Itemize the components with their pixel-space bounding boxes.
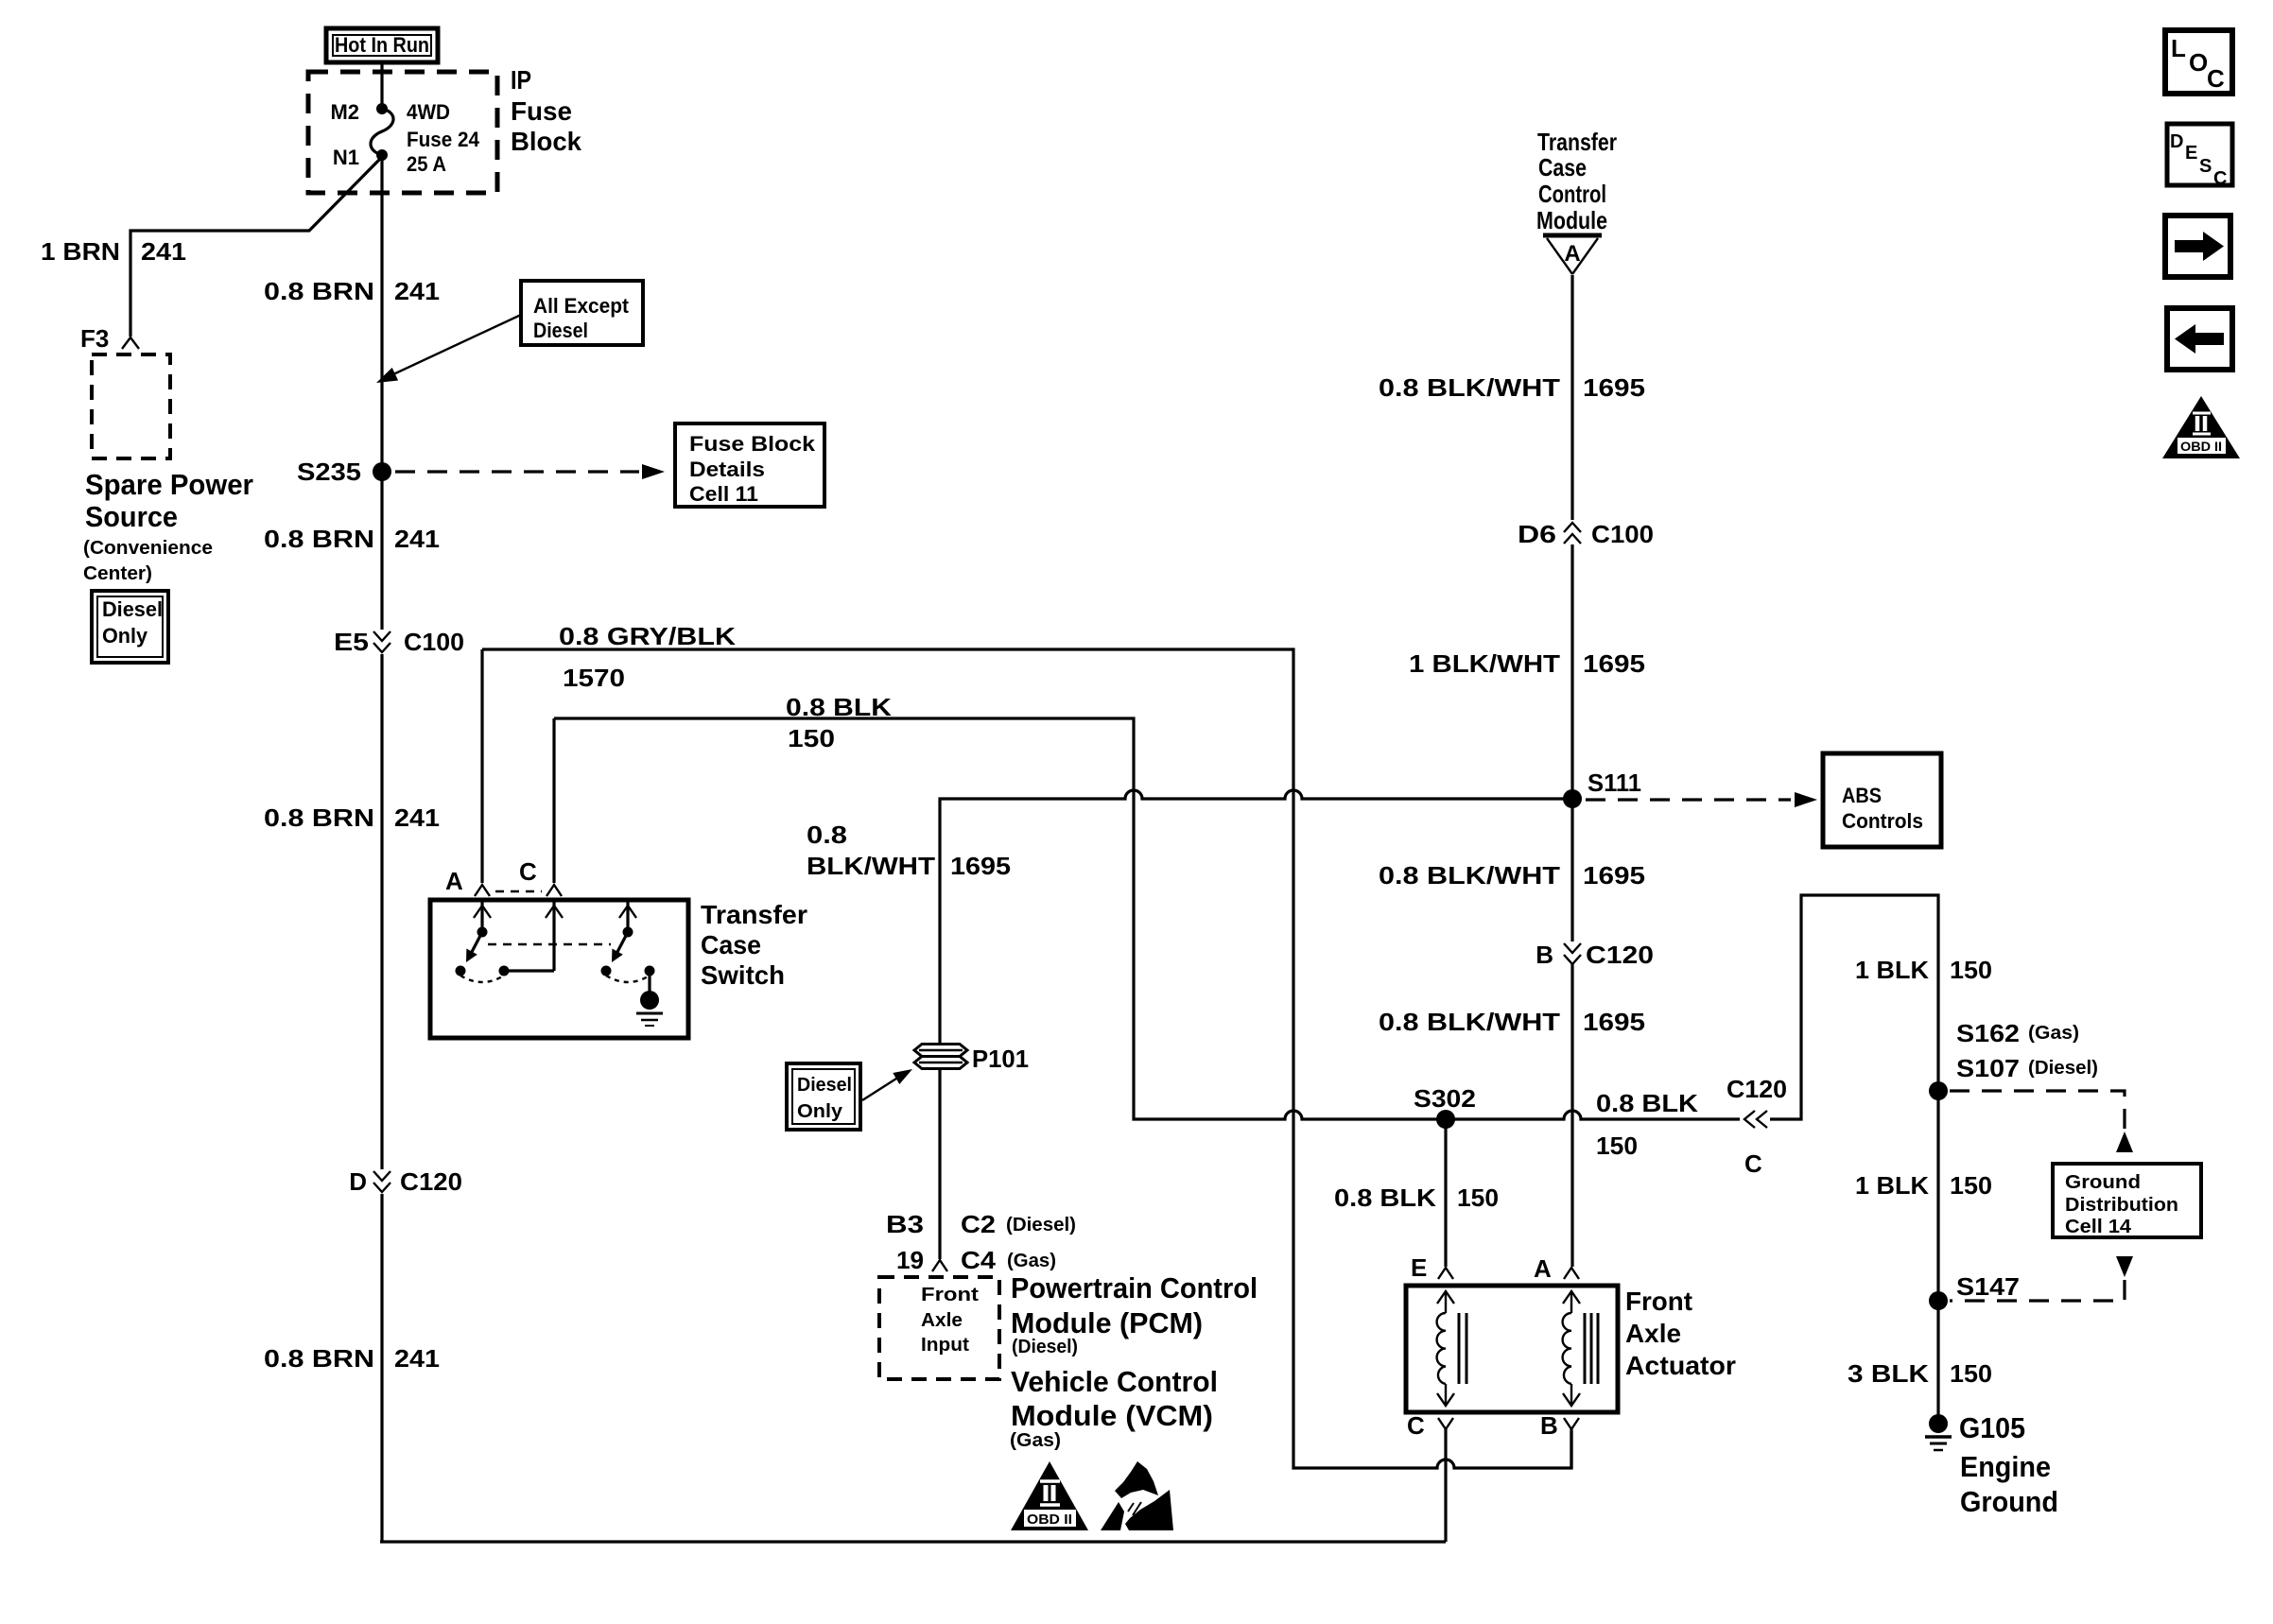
svg-text:1695: 1695 (1583, 861, 1645, 890)
svg-text:(Diesel): (Diesel) (2028, 1058, 2098, 1079)
svg-text:M2: M2 (330, 100, 359, 124)
svg-text:Only: Only (102, 624, 148, 648)
icon arrow right (2165, 216, 2230, 277)
label 1 BLK 150 (upper) (1855, 956, 1992, 984)
ref box Fuse Block Details Cell 11 (675, 423, 824, 507)
svg-text:Details: Details (689, 458, 765, 481)
svg-text:Axle: Axle (921, 1310, 963, 1331)
svg-text:(Gas): (Gas) (1007, 1251, 1056, 1271)
wire from Hot In Run to fuse (380, 62, 383, 109)
wire 0.8 BLK 150 (S302 to C120 and ground chain) (1446, 895, 1938, 1421)
switch contact wire to pin C (504, 900, 563, 971)
connector C120 (left chevrons) (1726, 1075, 1787, 1178)
label 0.8 BLK/WHT 1695 (lower) (1379, 1008, 1645, 1036)
dashed reference S162/S107 to Ground Distribution (1950, 1091, 2133, 1152)
svg-text:241: 241 (394, 525, 440, 553)
svg-text:S302: S302 (1414, 1084, 1476, 1113)
wire: bottom horizontal BRN 241 feed (380, 1540, 1446, 1543)
svg-text:4WD: 4WD (407, 100, 450, 124)
svg-text:Source: Source (85, 500, 178, 533)
svg-text:0.8 BLK: 0.8 BLK (1596, 1089, 1698, 1117)
svg-text:150: 150 (1457, 1183, 1499, 1212)
splice S302 (1414, 1084, 1476, 1129)
svg-text:Switch: Switch (701, 960, 785, 990)
label box Hot In Run (326, 28, 438, 62)
svg-text:B: B (1536, 941, 1553, 969)
label 0.8 BLK/WHT 1695 (top) (1379, 373, 1645, 402)
wire 0.8 BLK 150 (switch C to S302) (554, 718, 1446, 1119)
front axle actuator box (1406, 1286, 1618, 1412)
svg-text:Transfer: Transfer (701, 900, 807, 929)
svg-text:1695: 1695 (1583, 649, 1645, 678)
svg-text:241: 241 (141, 237, 186, 266)
switch pole A (left) (456, 900, 510, 982)
svg-text:B3: B3 (886, 1210, 924, 1238)
svg-text:Front: Front (921, 1285, 979, 1305)
label 0.8 BRN 241 (1) (264, 277, 440, 305)
svg-text:150: 150 (1950, 956, 1992, 984)
svg-text:Ground: Ground (2065, 1172, 2141, 1193)
svg-text:Diesel: Diesel (102, 597, 163, 621)
connector D C120 (349, 1167, 462, 1196)
svg-text:1695: 1695 (1583, 1008, 1645, 1036)
pin A of transfer case switch (445, 867, 490, 896)
svg-text:ABS: ABS (1842, 784, 1882, 807)
svg-text:C120: C120 (400, 1167, 462, 1196)
svg-text:Spare Power: Spare Power (85, 468, 253, 501)
splice S147 (1929, 1272, 2020, 1310)
ground inside switch (636, 971, 663, 1026)
svg-text:E5: E5 (334, 628, 369, 656)
label 0.8 BRN 241 (4) (264, 1344, 440, 1373)
svg-text:Axle: Axle (1625, 1319, 1681, 1348)
icon OBD II (top right) (2162, 396, 2240, 458)
svg-text:3 BLK: 3 BLK (1848, 1359, 1929, 1388)
svg-text:C100: C100 (1591, 520, 1654, 548)
label 1 BLK 150 (lower) (1855, 1171, 1992, 1200)
wire: main vertical 0.8 BRN 241 (380, 155, 383, 1542)
note box All Except Diesel with arrow (376, 281, 643, 383)
svg-text:D: D (2170, 131, 2183, 152)
svg-text:C: C (1744, 1149, 1762, 1178)
label 3 BLK 150 (1848, 1359, 1992, 1388)
svg-text:E: E (1411, 1253, 1427, 1282)
svg-text:E: E (2185, 143, 2197, 164)
svg-text:N1: N1 (333, 146, 359, 169)
splice S235 (297, 458, 391, 486)
svg-text:S111: S111 (1588, 769, 1641, 797)
icon arrow left (2167, 308, 2232, 370)
svg-text:Block: Block (511, 127, 581, 156)
svg-text:Vehicle Control: Vehicle Control (1011, 1365, 1218, 1398)
dashed reference arrow to ABS Controls (1586, 792, 1817, 807)
actuator coil 2 (A-B) (1563, 1291, 1598, 1406)
svg-text:0.8 BLK/WHT: 0.8 BLK/WHT (1379, 1008, 1560, 1036)
pin B3/19 of PCM/VCM (886, 1210, 1076, 1274)
svg-text:1695: 1695 (1583, 373, 1645, 402)
svg-text:B: B (1540, 1411, 1558, 1440)
svg-text:C: C (519, 857, 537, 886)
svg-text:O: O (2189, 48, 2208, 77)
IP fuse block (dashed outline) (308, 65, 581, 193)
label 0.8 BLK/WHT 1695 (mid) (1379, 861, 1645, 890)
label 0.8 BLK 150 (786, 693, 892, 752)
svg-text:IP: IP (511, 65, 531, 95)
svg-text:0.8 BLK/WHT: 0.8 BLK/WHT (1379, 861, 1560, 890)
dashed mechanical link between switch poles (488, 943, 611, 945)
svg-text:0.8 BLK/WHT: 0.8 BLK/WHT (1379, 373, 1560, 402)
splice S111 (1563, 769, 1641, 808)
pin E of front axle actuator (1411, 1253, 1453, 1282)
svg-text:Diesel: Diesel (797, 1075, 852, 1096)
svg-text:BLK/WHT: BLK/WHT (807, 852, 935, 880)
pin C of front axle actuator (1407, 1411, 1453, 1440)
svg-text:Control: Control (1538, 180, 1606, 208)
svg-text:C120: C120 (1586, 941, 1654, 969)
svg-text:OBD II: OBD II (2180, 439, 2222, 454)
transfer case switch box (430, 900, 688, 1038)
svg-text:C2: C2 (961, 1210, 996, 1238)
label 0.8 BLK 150 (pin E drop) (1334, 1183, 1499, 1212)
svg-text:S107: S107 (1956, 1054, 2020, 1082)
svg-text:Engine: Engine (1960, 1450, 2051, 1483)
icon LOC (2165, 30, 2232, 94)
splice S162 / S107 (1929, 1019, 2098, 1100)
ground G105 (1925, 1411, 2058, 1518)
svg-text:0.8 BLK: 0.8 BLK (1334, 1183, 1436, 1212)
svg-text:Fuse Block: Fuse Block (689, 432, 816, 456)
svg-text:C4: C4 (961, 1246, 997, 1274)
label 0.8 BRN 241 (3) (264, 803, 440, 832)
svg-text:S162: S162 (1956, 1019, 2020, 1047)
label Transfer Case Switch (701, 900, 807, 990)
svg-text:C100: C100 (404, 628, 464, 656)
svg-text:Cell 11: Cell 11 (689, 482, 758, 506)
wire actuator pin B stub (1570, 1429, 1572, 1468)
svg-text:P101: P101 (972, 1045, 1029, 1073)
svg-text:Module: Module (1536, 206, 1607, 234)
svg-text:C120: C120 (1726, 1075, 1787, 1103)
svg-text:150: 150 (1950, 1171, 1992, 1200)
label 0.8 BLK/WHT 1695 (PCM drop) (807, 821, 1011, 880)
connector pin F3 (80, 324, 139, 353)
svg-text:OBD II: OBD II (1027, 1512, 1072, 1528)
svg-text:Distribution: Distribution (2065, 1195, 2178, 1216)
svg-text:S147: S147 (1956, 1272, 2020, 1301)
note box Diesel Only (P101) with arrow (787, 1063, 912, 1130)
svg-text:D6: D6 (1518, 520, 1556, 548)
svg-text:0.8 BRN: 0.8 BRN (264, 525, 374, 553)
icon DESC (2167, 124, 2232, 189)
wire 0.8 BLK/WHT 1695 (S111 branch to PCM pin) (940, 790, 1572, 1259)
dashed line between pins A and C (495, 890, 542, 892)
svg-text:Actuator: Actuator (1625, 1351, 1736, 1380)
label 1 BRN 241 (41, 237, 186, 266)
dashed reference Ground Distribution to S147 (1950, 1256, 2133, 1301)
spare power source (dashed box) (83, 354, 253, 584)
wire 0.8 BLK/WHT 1695 (TCCM to actuator pin A) (1570, 275, 1573, 1267)
wire 0.8 GRY/BLK 1570 (switch A to actuator B) (482, 649, 1571, 1468)
svg-text:Case: Case (701, 930, 761, 959)
fuse 4WD Fuse 24 25 A (371, 100, 480, 176)
actuator coil 1 (E-C) (1437, 1291, 1466, 1406)
svg-text:L: L (2171, 34, 2186, 62)
svg-text:150: 150 (1950, 1359, 1992, 1388)
svg-text:All Except: All Except (533, 294, 630, 318)
svg-text:A: A (1534, 1254, 1552, 1283)
svg-text:Hot In Run: Hot In Run (335, 33, 429, 57)
label Powertrain Control Module (PCM) / Vehicle Control Module (VCM) (1010, 1271, 1258, 1451)
svg-text:241: 241 (394, 277, 440, 305)
svg-text:Only: Only (797, 1101, 843, 1122)
svg-text:Fuse: Fuse (511, 96, 572, 126)
ref box Ground Distribution Cell 14 (2053, 1164, 2201, 1237)
svg-text:C: C (2207, 64, 2225, 93)
svg-text:Diesel: Diesel (533, 319, 588, 342)
svg-text:Module (VCM): Module (VCM) (1011, 1399, 1213, 1432)
svg-text:Case: Case (1538, 153, 1587, 181)
label 0.8 BLK 150 (right of S302) (1596, 1089, 1698, 1160)
pin M2 (330, 100, 388, 124)
connector E5 C100 (334, 628, 464, 656)
svg-text:150: 150 (788, 724, 835, 752)
dashed reference arrow to Fuse Block Details (395, 464, 665, 479)
svg-text:Ground: Ground (1960, 1485, 2058, 1518)
svg-text:0.8 BRN: 0.8 BRN (264, 277, 374, 305)
svg-text:Front: Front (1625, 1287, 1692, 1316)
svg-text:S: S (2199, 156, 2212, 177)
pin C of transfer case switch (519, 718, 562, 896)
svg-text:0.8: 0.8 (807, 821, 847, 849)
label 0.8 BRN 241 (2) (264, 525, 440, 553)
svg-text:A: A (445, 867, 463, 895)
svg-text:Powertrain Control: Powertrain Control (1011, 1271, 1258, 1304)
svg-text:A: A (1564, 241, 1580, 267)
OBD II symbol (bottom) (1011, 1461, 1088, 1530)
svg-text:1695: 1695 (950, 852, 1011, 880)
switch pole B (right) (601, 900, 655, 982)
svg-text:Controls: Controls (1842, 809, 1923, 833)
svg-text:1 BRN: 1 BRN (41, 237, 120, 266)
front axle input (dashed box) (879, 1277, 999, 1379)
svg-text:(Gas): (Gas) (2028, 1023, 2079, 1044)
svg-text:0.8 BRN: 0.8 BRN (264, 1344, 374, 1373)
pin A of front axle actuator (1534, 1254, 1579, 1283)
svg-text:0.8 BRN: 0.8 BRN (264, 803, 374, 832)
svg-text:150: 150 (1596, 1132, 1638, 1160)
wire actuator pin C to BRN 241 feed (1444, 1429, 1447, 1542)
transfer case control module triangle A (1536, 128, 1617, 274)
svg-text:Module (PCM): Module (PCM) (1011, 1306, 1203, 1339)
svg-text:1 BLK: 1 BLK (1855, 956, 1929, 984)
connector B C120 (1536, 941, 1654, 969)
svg-text:C: C (1407, 1411, 1425, 1440)
svg-text:25 A: 25 A (407, 152, 446, 176)
svg-text:1 BLK: 1 BLK (1855, 1171, 1929, 1200)
svg-text:Fuse 24: Fuse 24 (407, 128, 480, 151)
pin B of front axle actuator (1540, 1411, 1579, 1440)
svg-text:(Gas): (Gas) (1010, 1430, 1061, 1451)
svg-text:(Diesel): (Diesel) (1012, 1337, 1078, 1357)
svg-text:0.8 BLK: 0.8 BLK (786, 693, 892, 721)
svg-text:F3: F3 (80, 324, 109, 353)
ESD symbol (1101, 1461, 1173, 1530)
svg-text:0.8 GRY/BLK: 0.8 GRY/BLK (559, 622, 736, 650)
svg-text:241: 241 (394, 803, 440, 832)
label 0.8 GRY/BLK 1570 (559, 622, 736, 692)
svg-text:241: 241 (394, 1344, 440, 1373)
svg-text:(Diesel): (Diesel) (1006, 1215, 1076, 1235)
svg-text:19: 19 (896, 1246, 924, 1274)
svg-text:Transfer: Transfer (1537, 128, 1617, 156)
connector D6 C100 (1518, 520, 1654, 548)
svg-text:Cell 14: Cell 14 (2065, 1217, 2132, 1237)
wire 1 BRN 241 from N1 to F3 (130, 157, 382, 337)
inline connector P101 (914, 1045, 1029, 1074)
svg-text:1 BLK/WHT: 1 BLK/WHT (1409, 649, 1560, 678)
svg-text:G105: G105 (1959, 1411, 2025, 1444)
label 1 BLK/WHT 1695 (1409, 649, 1645, 678)
svg-text:D: D (349, 1167, 367, 1196)
ref box ABS Controls (1823, 753, 1941, 847)
pin N1 (333, 146, 388, 169)
wire 0.8 BLK 150 (S302 down to actuator pin E) (1444, 1119, 1447, 1267)
svg-text:C: C (2213, 168, 2227, 189)
svg-text:Center): Center) (83, 563, 152, 584)
svg-text:S235: S235 (297, 458, 361, 486)
label Front Axle Actuator (1625, 1287, 1736, 1380)
svg-text:1570: 1570 (563, 664, 625, 692)
svg-text:(Convenience: (Convenience (83, 538, 213, 559)
note box Diesel Only (left) (92, 591, 168, 663)
svg-text:Input: Input (921, 1335, 969, 1356)
